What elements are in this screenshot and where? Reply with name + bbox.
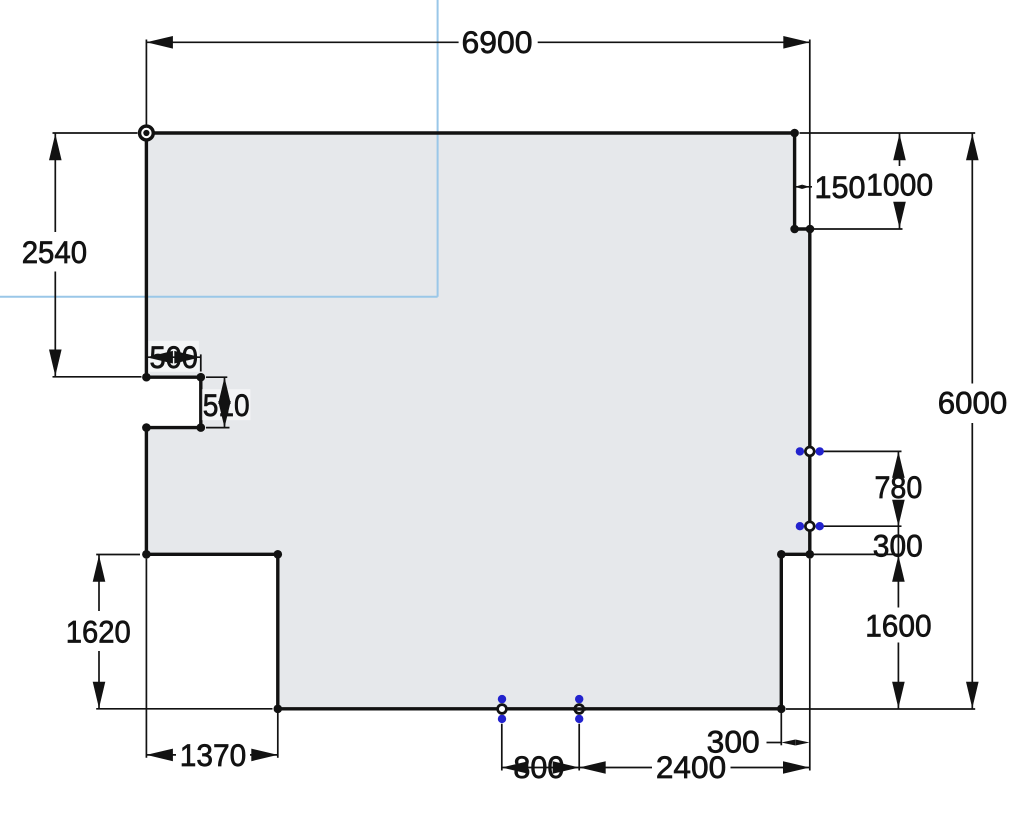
svg-text:2400: 2400 bbox=[656, 749, 726, 785]
svg-text:1600: 1600 bbox=[865, 608, 931, 644]
svg-text:1000: 1000 bbox=[866, 166, 933, 202]
svg-text:2540: 2540 bbox=[22, 234, 87, 270]
svg-text:780: 780 bbox=[875, 469, 923, 505]
svg-text:1370: 1370 bbox=[180, 737, 246, 773]
svg-text:6900: 6900 bbox=[462, 24, 533, 60]
svg-text:150: 150 bbox=[815, 169, 866, 205]
svg-text:6000: 6000 bbox=[938, 385, 1008, 421]
svg-text:1620: 1620 bbox=[66, 613, 131, 649]
